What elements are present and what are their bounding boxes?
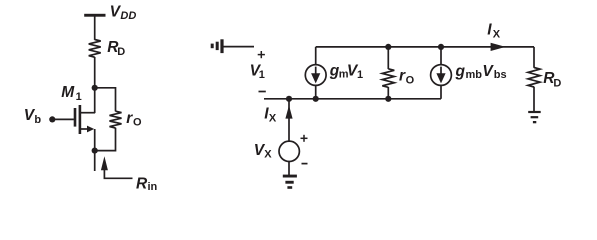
wire M1 source down (94, 129, 96, 151)
label rO (middle) (399, 67, 415, 86)
svg-text:O: O (406, 74, 415, 86)
svg-text:1: 1 (357, 69, 363, 81)
svg-text:D: D (117, 46, 125, 58)
wire RD to ground (533, 87, 535, 111)
current source gmbVbs (431, 65, 452, 86)
label IX (top) (487, 22, 501, 41)
label RD (left) (107, 39, 125, 58)
svg-text:R: R (136, 176, 148, 193)
label Vb (24, 107, 42, 126)
Rin arrow head (101, 156, 108, 170)
resistor rO (left) (110, 111, 122, 128)
svg-text:in: in (148, 181, 158, 193)
svg-text:1: 1 (259, 69, 265, 81)
svg-text:g: g (455, 63, 466, 80)
wire gate from Vb (54, 118, 74, 120)
label gmV1 (329, 63, 363, 82)
transistor M1 gate bar (74, 108, 77, 127)
svg-text:DD: DD (120, 10, 136, 22)
VDD supply bar (84, 14, 105, 17)
svg-text:mb: mb (466, 69, 483, 81)
wire gmV1 bottom (315, 85, 317, 99)
svg-text:O: O (133, 117, 142, 129)
wire gmbVbs bottom (440, 85, 442, 99)
svg-text:I: I (487, 22, 492, 39)
minus sign V1 (259, 91, 266, 93)
wire drain node to M1 drain (94, 88, 96, 113)
wire M1 source horizontal (81, 128, 89, 130)
wire gate ground to V1 plus (224, 46, 255, 48)
IX arrow (top rail) (491, 43, 506, 51)
terminal Vb (bullet) (49, 116, 55, 122)
node source (dot) (92, 148, 98, 154)
wire rO bottom branch (95, 128, 116, 151)
wire VX to rail (288, 99, 290, 141)
bottom rail (source node) (264, 98, 441, 100)
resistor RD (left) (89, 40, 101, 58)
label V1 (250, 62, 265, 81)
wire rO top branch (95, 88, 116, 112)
wire rO mid bottom (387, 87, 389, 99)
current source gmV1 (305, 65, 326, 86)
node gmV1 bottom (dot) (313, 96, 319, 102)
label rO (left) (126, 110, 142, 128)
gate AC-ground symbol (sideways) (211, 39, 224, 53)
svg-text:X: X (269, 113, 277, 125)
source VX (circle) (279, 141, 299, 161)
svg-text:bs: bs (494, 69, 507, 81)
plus sign V1 (258, 51, 265, 58)
svg-text:b: b (34, 114, 41, 126)
plus sign VX (301, 135, 308, 142)
svg-text:D: D (553, 77, 561, 89)
svg-text:V: V (482, 63, 494, 80)
label VDD (110, 3, 137, 22)
label RD (right) (543, 70, 561, 89)
minus sign VX (302, 163, 308, 165)
svg-text:1: 1 (76, 91, 82, 103)
Rin arrow shaft (104, 170, 132, 179)
wire VX to ground (288, 161, 290, 175)
ground under VX (283, 175, 297, 189)
top rail (drain node) (316, 46, 534, 48)
label gmbVbs (455, 63, 507, 81)
svg-text:X: X (264, 149, 272, 161)
wire M1 drain horizontal (81, 112, 96, 114)
wire gmV1 top (315, 47, 317, 65)
wire gmbVbs top (440, 47, 442, 65)
svg-text:M: M (61, 84, 75, 101)
M1 source arrow (87, 126, 94, 133)
label M1 (61, 84, 82, 103)
resistor rO (middle) (382, 69, 394, 88)
wire source stub down (94, 151, 96, 171)
wire top rail corner to RD (533, 47, 535, 68)
node gmbVbs top (dot) (438, 44, 444, 50)
label VX (254, 142, 272, 160)
IX arrow (VX branch) (285, 105, 292, 118)
wire RD to drain node (94, 57, 96, 88)
transistor M1 channel bar (79, 105, 82, 134)
ground under RD (528, 111, 541, 123)
node VX top (dot) (286, 96, 292, 102)
node drain (dot) (92, 85, 98, 91)
label Rin (136, 176, 158, 193)
node rO top (dot) (385, 44, 391, 50)
svg-text:X: X (493, 29, 501, 41)
resistor RD (right) (528, 68, 540, 88)
wire VDD to RD (94, 16, 96, 40)
node rO bottom (dot) (385, 96, 391, 102)
label IX (VX branch) (264, 106, 277, 125)
wire rO mid top (387, 47, 389, 69)
